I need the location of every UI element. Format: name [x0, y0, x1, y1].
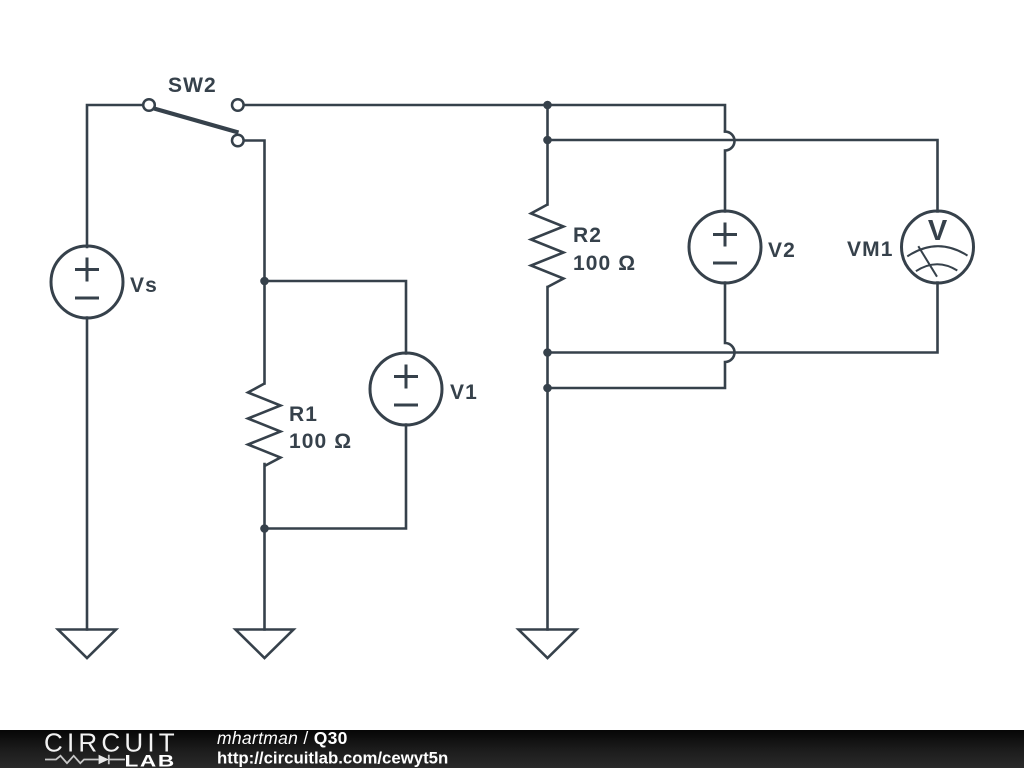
svg-text:R2: R2: [573, 224, 602, 247]
svg-text:SW2: SW2: [168, 74, 217, 97]
wire hop over y140 wire (V2 top lead): [725, 132, 735, 212]
wire VM1 bottom lead to node at R2 bottom: [548, 283, 938, 353]
svg-text:V: V: [928, 215, 948, 247]
resistor R2: [531, 205, 564, 288]
wire net B from R2 to VM1 top lead: [548, 140, 938, 212]
wire R1 top lead: [263, 281, 266, 384]
svg-text:Vs: Vs: [130, 274, 158, 297]
ground symbol 1 (Vs): [58, 630, 116, 659]
svg-text:VM1: VM1: [847, 238, 893, 261]
node junction at 264.5,528.5: [260, 524, 269, 533]
wire switch pole SW2 right pin to V2 top (net A): [242, 105, 725, 132]
svg-text:http://circuitlab.com/cewyt5n: http://circuitlab.com/cewyt5n: [217, 749, 448, 768]
wire V2 bottom lead with hop to node: [548, 283, 735, 389]
ground symbol 2 (R1/V1): [236, 630, 294, 659]
svg-text:V2: V2: [768, 239, 796, 262]
wire Vs bottom lead to ground: [86, 318, 89, 630]
switch SW2: [143, 99, 243, 146]
svg-text:V1: V1: [450, 381, 478, 404]
svg-text:LAB: LAB: [125, 752, 176, 768]
svg-text:R1: R1: [289, 403, 318, 426]
wire R2 bottom lead to ground: [546, 287, 549, 630]
voltage source V2: [689, 211, 761, 283]
wire V1 bottom lead to node: [265, 425, 407, 529]
wire Vs top lead to switch: [87, 105, 145, 247]
wire R2 top lead from net A: [546, 105, 549, 205]
node junction at 547.5,352.5: [543, 348, 552, 357]
CircuitLab logo resistor-diode line: [45, 755, 125, 764]
voltmeter VM1: [902, 211, 974, 283]
wire node R1-top to V1 top lead: [265, 281, 407, 354]
wire switch bottom throw to R1 branch: [242, 141, 265, 282]
node junction at 264.5,281: [260, 277, 269, 286]
node junction at 547.5,388: [543, 384, 552, 393]
svg-text:mhartman / Q30: mhartman / Q30: [217, 728, 348, 748]
voltage source V1: [370, 353, 442, 425]
wire R1 bottom lead: [263, 464, 266, 529]
wire R1-bottom node to ground: [263, 529, 266, 630]
voltage source Vs: [51, 246, 123, 318]
footer bar: [0, 730, 1024, 768]
node junction at 547.5,140: [543, 136, 552, 145]
resistor R1: [248, 384, 281, 467]
ground symbol 3 (R2): [519, 630, 577, 659]
svg-text:100 Ω: 100 Ω: [289, 430, 352, 453]
svg-text:100 Ω: 100 Ω: [573, 252, 636, 275]
node junction at 547.5,105: [543, 101, 552, 110]
